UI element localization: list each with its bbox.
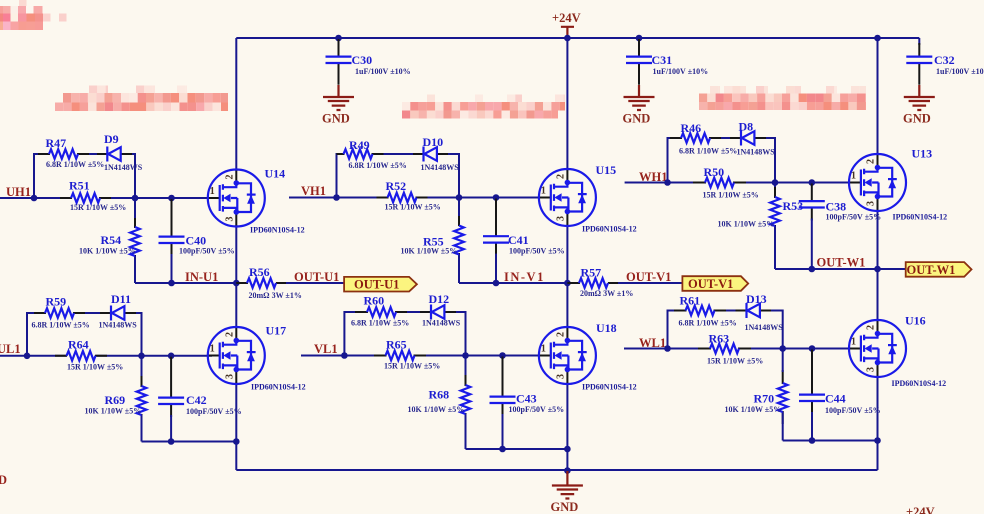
- svg-text:C31: C31: [652, 53, 673, 67]
- node C42 junction: [168, 353, 175, 360]
- power +24V top: [552, 11, 581, 37]
- diode D13: [736, 292, 784, 332]
- svg-text:U14: U14: [265, 167, 286, 181]
- node OUT-W1 junction: [874, 266, 881, 273]
- svg-text:R68: R68: [429, 388, 450, 402]
- resistor R68: [408, 356, 471, 450]
- svg-text:6.8R 1/10W ±5%: 6.8R 1/10W ±5%: [679, 319, 737, 328]
- svg-text:D10: D10: [423, 135, 444, 149]
- svg-text:GND: GND: [322, 112, 350, 126]
- svg-text:U16: U16: [905, 314, 926, 328]
- resistor R46: [670, 121, 737, 156]
- svg-text:IN-V1: IN-V1: [504, 270, 545, 284]
- capacitor C30: [326, 39, 411, 85]
- svg-text:20mΩ 3W ±1%: 20mΩ 3W ±1%: [249, 291, 302, 300]
- node VL1 junction: [341, 352, 348, 359]
- svg-text:15R 1/10W ±5%: 15R 1/10W ±5%: [703, 191, 759, 200]
- node UL1 junction: [24, 353, 31, 360]
- svg-text:15R 1/10W ±5%: 15R 1/10W ±5%: [707, 357, 763, 366]
- redacted pink mosaic left: [55, 86, 228, 112]
- capacitor C40: [159, 199, 235, 283]
- resistor R59: [32, 295, 90, 330]
- node UH1 junction: [31, 195, 38, 202]
- svg-text:U13: U13: [912, 147, 933, 161]
- wire WH1 input: [625, 182, 853, 184]
- node IN-V1 junction: [564, 280, 571, 287]
- svg-text:R59: R59: [46, 295, 67, 309]
- capacitor C31: [626, 39, 708, 85]
- wire C32 drop: [918, 38, 920, 45]
- ground bottom center: [551, 467, 583, 514]
- resistor R50: [693, 165, 759, 200]
- wire R59 D11 branch: [27, 313, 142, 356]
- svg-text:D8: D8: [739, 120, 754, 134]
- svg-text:UH1: UH1: [6, 185, 31, 199]
- svg-text:15R 1/10W ±5%: 15R 1/10W ±5%: [67, 363, 123, 372]
- svg-text:R60: R60: [364, 294, 385, 308]
- wire right bus vertical: [877, 38, 879, 470]
- svg-text:C38: C38: [826, 200, 847, 214]
- svg-text:IPD60N10S4-12: IPD60N10S4-12: [892, 379, 947, 388]
- redacted pink mosaic top-left: [0, 0, 67, 30]
- resistor R70: [725, 349, 788, 441]
- wire R60 D12 branch: [344, 312, 465, 356]
- svg-text:10K 1/10W ±5%: 10K 1/10W ±5%: [85, 407, 142, 416]
- wire VL1 input: [301, 355, 543, 357]
- svg-text:D13: D13: [746, 292, 767, 306]
- node R55 junction: [456, 194, 463, 201]
- svg-text:OUT-U1: OUT-U1: [354, 278, 399, 292]
- transistor U14: [207, 167, 305, 235]
- svg-text:UL1: UL1: [0, 342, 21, 356]
- svg-text:OUT-U1: OUT-U1: [294, 270, 339, 284]
- wire U17 source row: [142, 441, 237, 443]
- svg-text:R46: R46: [681, 121, 702, 135]
- wire IN-U1 row: [135, 282, 236, 284]
- ground below C31: [623, 85, 655, 126]
- svg-text:1N4148WS: 1N4148WS: [737, 148, 776, 157]
- svg-text:D12: D12: [429, 292, 450, 306]
- wire R47 D9 branch: [34, 154, 135, 198]
- wire R61 D13 branch: [668, 311, 783, 349]
- capacitor C44: [799, 350, 881, 441]
- svg-text:C42: C42: [186, 393, 207, 407]
- node WH1 junction: [664, 179, 671, 186]
- svg-text:IPD60N10S4-12: IPD60N10S4-12: [251, 383, 306, 392]
- redacted pink mosaic right: [699, 86, 866, 110]
- svg-text:R57: R57: [581, 266, 602, 280]
- node WL1 junction: [664, 345, 671, 352]
- svg-text:R69: R69: [105, 393, 126, 407]
- svg-text:6.8R 1/10W ±5%: 6.8R 1/10W ±5%: [351, 319, 409, 328]
- capacitor C32: [906, 43, 984, 85]
- svg-text:C30: C30: [352, 53, 373, 67]
- resistor R56: [236, 265, 344, 300]
- svg-text:100pF/50V ±5%: 100pF/50V ±5%: [509, 247, 565, 256]
- svg-text:100pF/50V ±5%: 100pF/50V ±5%: [186, 407, 242, 416]
- svg-text:GND: GND: [551, 500, 579, 514]
- svg-text:D: D: [0, 473, 7, 487]
- diode D10: [413, 135, 459, 172]
- diode D9: [97, 132, 143, 172]
- svg-text:VL1: VL1: [314, 342, 338, 356]
- wire top +24V rail: [236, 37, 919, 39]
- svg-text:OUT-W1: OUT-W1: [817, 256, 866, 270]
- port OUT-U1: [344, 277, 417, 292]
- transistor U13: [848, 147, 947, 222]
- svg-text:1N4148WS: 1N4148WS: [745, 323, 784, 332]
- resistor R54: [79, 198, 140, 283]
- svg-text:15R 1/10W ±5%: 15R 1/10W ±5%: [384, 362, 440, 371]
- svg-text:6.8R 1/10W ±5%: 6.8R 1/10W ±5%: [32, 321, 90, 330]
- svg-text:GND: GND: [903, 112, 931, 126]
- wire VH1 input: [289, 197, 543, 199]
- svg-text:1uF/100V ±10%: 1uF/100V ±10%: [653, 67, 709, 76]
- wire U18 source row: [466, 448, 568, 450]
- node R53 junction: [772, 179, 779, 186]
- wire WL1 input: [624, 348, 853, 350]
- node U17 bottom junction: [233, 438, 240, 445]
- svg-text:R63: R63: [709, 332, 730, 346]
- node R54 junction: [132, 195, 139, 202]
- capacitor C41: [483, 199, 565, 284]
- wire U16 source row: [783, 440, 878, 442]
- node C43 bottom junction: [499, 446, 506, 453]
- diode D11: [99, 292, 138, 330]
- resistor R47: [38, 136, 104, 169]
- wire UL1 input: [0, 355, 212, 357]
- resistor R51: [60, 179, 126, 213]
- capacitor C43: [490, 357, 565, 450]
- redacted pink mosaic middle: [402, 95, 565, 119]
- svg-text:C41: C41: [508, 233, 529, 247]
- node C43 junction: [499, 352, 506, 359]
- svg-text:10K 1/10W ±5%: 10K 1/10W ±5%: [725, 405, 782, 414]
- svg-text:R54: R54: [101, 233, 122, 247]
- resistor R65: [374, 338, 440, 371]
- transistor U17: [207, 324, 306, 392]
- node VH1 junction: [333, 194, 340, 201]
- node R70 junction: [779, 345, 786, 352]
- port OUT-W1: [906, 262, 972, 277]
- resistor R60: [351, 294, 409, 328]
- wire left bus vertical: [235, 38, 237, 470]
- svg-text:R64: R64: [68, 338, 89, 352]
- node IN-U1 junction: [233, 280, 240, 287]
- wire OUT-W1 row: [775, 268, 878, 270]
- svg-text:D9: D9: [104, 132, 119, 146]
- svg-text:R52: R52: [386, 179, 407, 193]
- svg-text:C40: C40: [186, 234, 207, 248]
- svg-text:OUT-V1: OUT-V1: [688, 277, 733, 291]
- wire bottom GND rail: [236, 469, 877, 471]
- wire to OUT-W1 port: [878, 268, 906, 270]
- wire middle bus vertical: [566, 38, 568, 471]
- svg-text:100pF/50V ±5%: 100pF/50V ±5%: [826, 213, 882, 222]
- svg-text:10K 1/10W ±5%: 10K 1/10W ±5%: [401, 247, 458, 256]
- node C44 bottom junction: [809, 437, 816, 444]
- svg-text:10K 1/10W ±5%: 10K 1/10W ±5%: [718, 220, 775, 229]
- svg-text:C32: C32: [934, 53, 955, 67]
- svg-text:GND: GND: [623, 112, 651, 126]
- svg-text:100pF/50V ±5%: 100pF/50V ±5%: [179, 247, 235, 256]
- resistor R52: [377, 179, 441, 212]
- diode D12: [420, 292, 461, 328]
- svg-text:IPD60N10S4-12: IPD60N10S4-12: [582, 383, 637, 392]
- resistor R63: [698, 332, 763, 366]
- svg-text:1N4148WS: 1N4148WS: [99, 321, 138, 330]
- svg-text:R65: R65: [386, 338, 407, 352]
- svg-text:R47: R47: [46, 136, 67, 150]
- svg-text:U17: U17: [266, 324, 287, 338]
- resistor R57: [567, 266, 682, 299]
- svg-text:R61: R61: [680, 294, 701, 308]
- svg-text:IPD60N10S4-12: IPD60N10S4-12: [250, 226, 305, 235]
- svg-text:R56: R56: [249, 265, 270, 279]
- node junction top rail: [335, 35, 881, 42]
- svg-text:IPD60N10S4-12: IPD60N10S4-12: [893, 213, 948, 222]
- svg-text:R70: R70: [754, 392, 775, 406]
- node U18 bottom junction: [564, 446, 571, 453]
- node C41 junction: [493, 194, 500, 201]
- ground below C30: [322, 85, 354, 126]
- svg-text:6.8R 1/10W ±5%: 6.8R 1/10W ±5%: [679, 147, 737, 156]
- wire R49 D10 branch: [337, 154, 460, 198]
- svg-text:1N4148WS: 1N4148WS: [422, 319, 461, 328]
- svg-text:IN-U1: IN-U1: [185, 270, 218, 284]
- svg-text:1uF/100V ±10%: 1uF/100V ±10%: [355, 67, 411, 76]
- svg-text:IPD60N10S4-12: IPD60N10S4-12: [582, 225, 637, 234]
- resistor R53: [718, 183, 804, 270]
- wire UH1 input: [0, 197, 212, 199]
- transistor U18: [538, 321, 637, 392]
- resistor R61: [674, 294, 737, 328]
- svg-text:C43: C43: [516, 392, 537, 406]
- svg-text:U18: U18: [596, 321, 617, 335]
- svg-text:10K 1/10W ±5%: 10K 1/10W ±5%: [79, 247, 136, 256]
- svg-text:R49: R49: [349, 138, 370, 152]
- svg-text:+24V: +24V: [552, 11, 581, 25]
- resistor R69: [85, 356, 147, 442]
- svg-text:20mΩ 3W ±1%: 20mΩ 3W ±1%: [580, 289, 633, 298]
- resistor R49: [337, 138, 407, 170]
- svg-text:R50: R50: [704, 165, 725, 179]
- capacitor C42: [158, 357, 241, 442]
- diode D8: [730, 120, 775, 157]
- wire IN-V1 row: [459, 282, 567, 284]
- node U16 bottom junction: [874, 437, 881, 444]
- ground below C32: [903, 85, 935, 126]
- svg-text:15R 1/10W ±5%: 15R 1/10W ±5%: [70, 203, 126, 212]
- svg-text:1N4148WS: 1N4148WS: [421, 163, 460, 172]
- svg-text:100pF/50V ±5%: 100pF/50V ±5%: [825, 406, 881, 415]
- node C38 junction: [809, 179, 816, 186]
- node R69 junction: [138, 353, 145, 360]
- wire R46 D8 branch: [668, 138, 776, 183]
- svg-text:1uF/100V ±10%: 1uF/100V ±10%: [936, 67, 984, 76]
- svg-text:6.8R 1/10W ±5%: 6.8R 1/10W ±5%: [46, 160, 104, 169]
- node C40 bottom junction: [168, 280, 175, 287]
- node C41 bottom junction: [493, 280, 500, 287]
- svg-text:100pF/50V ±5%: 100pF/50V ±5%: [509, 405, 565, 414]
- node C44 junction: [809, 345, 816, 352]
- node C42 bottom junction: [168, 438, 175, 445]
- node C40 junction: [168, 195, 175, 202]
- svg-text:VH1: VH1: [301, 184, 326, 198]
- svg-text:10K 1/10W ±5%: 10K 1/10W ±5%: [408, 405, 465, 414]
- transistor U16: [848, 314, 946, 389]
- svg-text:15R 1/10W ±5%: 15R 1/10W ±5%: [385, 203, 441, 212]
- svg-text:D11: D11: [111, 292, 131, 306]
- svg-text:OUT-W1: OUT-W1: [907, 263, 956, 277]
- resistor R55: [401, 198, 464, 284]
- svg-text:6.8R 1/10W ±5%: 6.8R 1/10W ±5%: [349, 161, 407, 170]
- svg-text:C44: C44: [825, 392, 846, 406]
- node C38 bottom junction: [809, 266, 816, 273]
- svg-text:1N4148WS: 1N4148WS: [104, 163, 143, 172]
- svg-text:U15: U15: [596, 163, 617, 177]
- port OUT-V1: [682, 276, 748, 291]
- svg-text:+24V: +24V: [906, 505, 935, 514]
- resistor R64: [55, 338, 123, 372]
- svg-text:OUT-V1: OUT-V1: [626, 270, 671, 284]
- svg-text:R51: R51: [69, 179, 90, 193]
- transistor U15: [538, 163, 637, 234]
- capacitor C38: [799, 184, 881, 270]
- node R68 junction: [462, 352, 469, 359]
